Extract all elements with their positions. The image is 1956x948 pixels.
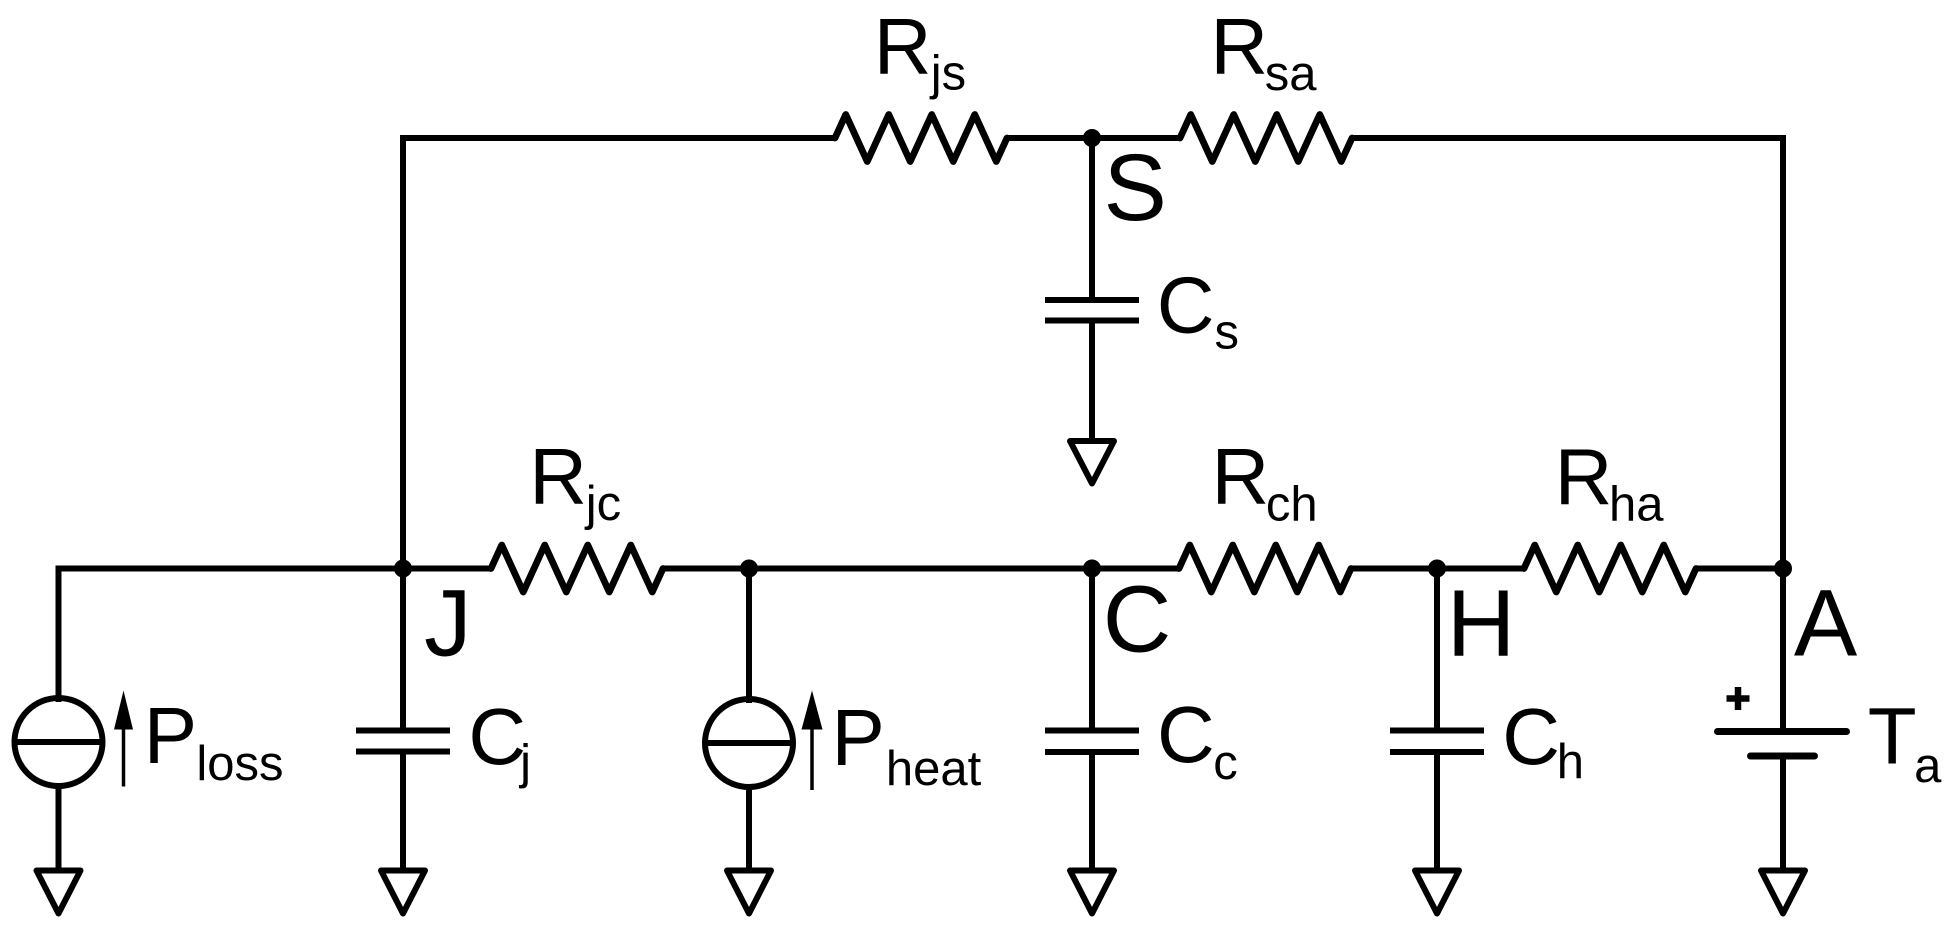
resistor Rch [1179,545,1351,592]
svg-text:jc: jc [584,477,621,531]
svg-text:C: C [1157,690,1215,779]
svg-text:loss: loss [196,737,283,791]
svg-text:h: h [1557,735,1584,789]
wire Ta to ground [1780,756,1786,871]
svg-text:s: s [1215,306,1240,360]
svg-text:T: T [1868,691,1917,780]
svg-text:C: C [1502,692,1560,781]
wire heat node down to Pheat [746,569,752,704]
capacitor Cc [1045,728,1139,734]
wire node S down to Cs [1089,138,1095,298]
svg-text:C: C [468,692,526,781]
svg-text:sa: sa [1265,47,1318,101]
wire top-left horizontal segment (J corner to Rjs) [403,138,835,353]
battery Ta short plate [1751,753,1815,760]
capacitor Cj [356,728,450,734]
wire Rsa to top-right corner down to node A [1352,138,1783,569]
node J [394,560,412,578]
svg-text:heat: heat [886,742,982,796]
svg-text:ch: ch [1266,477,1318,531]
arrow Ploss [122,728,126,787]
resistor Rsa [1180,115,1352,162]
wire node J down to Cj [400,569,406,729]
svg-text:S: S [1104,135,1167,241]
ground (Ploss) [37,871,81,914]
svg-text:js: js [929,47,966,101]
wire left vertical J riser [400,338,406,569]
svg-text:A: A [1794,570,1858,676]
ground (node S branch) [1070,441,1114,484]
node A [1774,560,1792,578]
svg-text:ha: ha [1609,477,1664,531]
svg-text:H: H [1447,570,1516,676]
svg-text:P: P [832,693,885,782]
wire node A down to Ta battery [1780,569,1786,732]
wire Cc to ground [1089,752,1095,871]
wire Ploss to ground [56,785,62,871]
svg-text:R: R [1210,2,1268,91]
ground (Cj) [381,871,425,914]
wire Pheat to ground [746,786,752,871]
resistor Rjc [491,545,663,592]
capacitor Ch [1390,728,1484,734]
battery Ta plus sign [1727,695,1750,702]
current source Pheat [705,699,793,787]
wire Ch to ground [1434,752,1440,871]
svg-text:R: R [1555,432,1613,521]
resistor Rjs [835,115,1007,162]
svg-text:j: j [518,736,531,790]
svg-text:C: C [1157,260,1215,349]
wire Rha to node A [1696,566,1783,572]
node C [1083,560,1101,578]
node H [1428,560,1446,578]
wire middle horizontal left segment [59,569,492,699]
ground (Ta) [1761,871,1805,914]
svg-text:R: R [529,432,587,521]
ground (Cc) [1070,871,1114,914]
capacitor Cs [1045,297,1139,303]
wire node H down to Ch [1434,569,1440,729]
arrow Pheat [810,728,814,790]
wire Rjc to Rch through nodes [663,566,1179,572]
node S [1083,129,1101,147]
node heat [740,560,758,578]
svg-text:R: R [1212,432,1270,521]
battery Ta long plate [1718,728,1847,735]
resistor Rha [1524,545,1696,592]
ground (Pheat) [727,871,771,914]
wire Rch to Rha [1351,566,1524,572]
svg-text:J: J [424,570,472,676]
ground (Ch) [1415,871,1459,914]
wire Cs to ground [1089,321,1095,442]
wire Rjs to Rsa through node S [1007,135,1180,141]
svg-text:P: P [144,691,197,780]
wire Cj to ground [400,752,406,872]
svg-text:c: c [1213,736,1238,790]
svg-text:C: C [1103,567,1172,673]
wire node C down to Cc [1089,569,1095,729]
svg-text:a: a [1914,739,1942,793]
current source Ploss [15,698,103,786]
wire left column down to Ploss [56,689,62,703]
svg-text:R: R [874,2,932,91]
